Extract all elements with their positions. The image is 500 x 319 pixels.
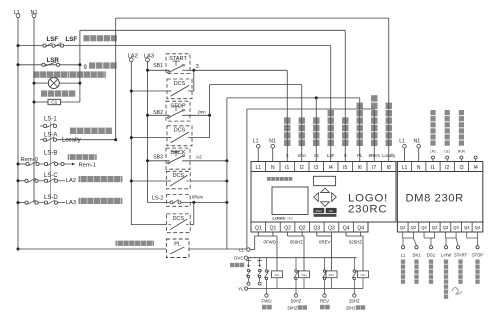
svg-text:LR1: LR1 — [430, 150, 436, 154]
svg-text:Q1: Q1 — [255, 225, 262, 231]
svg-text:DCS: DCS — [174, 128, 186, 134]
svg-text:N1: N1 — [414, 139, 421, 145]
svg-text:0REV: 0REV — [319, 239, 331, 244]
svg-text:Rem-0: Rem-0 — [21, 157, 38, 163]
svg-text:Q2: Q2 — [421, 225, 427, 230]
svg-text:Q3: Q3 — [328, 225, 335, 231]
svg-text:PL: PL — [357, 153, 363, 158]
svg-text:I3: I3 — [314, 165, 318, 171]
svg-text:50HZ: 50HZ — [288, 306, 299, 311]
svg-text:L1: L1 — [399, 139, 405, 145]
svg-text:RUN: RUN — [458, 150, 466, 154]
svg-text:LS1: LS1 — [444, 150, 450, 154]
svg-text:LSR: LSR — [47, 57, 60, 64]
svg-text:LS-B: LS-B — [44, 151, 57, 157]
svg-text:25H: 25H — [360, 273, 365, 277]
svg-text:I8: I8 — [387, 165, 391, 171]
svg-text:L1: L1 — [255, 165, 261, 171]
svg-text:I1: I1 — [285, 165, 289, 171]
svg-text:Q3: Q3 — [443, 225, 449, 230]
svg-text:Rem-1: Rem-1 — [79, 163, 96, 169]
svg-text:Q2: Q2 — [411, 225, 417, 230]
svg-text:L-HW: L-HW — [441, 253, 452, 258]
svg-text:Locally: Locally — [62, 138, 81, 144]
svg-text:3: 3 — [196, 64, 199, 70]
svg-text:DCS: DCS — [173, 216, 185, 222]
svg-text:DG1: DG1 — [427, 253, 436, 258]
svg-text:LS-D: LS-D — [44, 195, 58, 201]
svg-text:230RC: 230RC — [348, 204, 387, 216]
svg-text:Q3: Q3 — [453, 225, 459, 230]
svg-text:FE1: FE1 — [274, 273, 280, 277]
svg-text:REV: REV — [320, 299, 329, 304]
svg-text:A2: A2 — [314, 153, 320, 158]
svg-text:8Rem: 8Rem — [369, 153, 381, 158]
svg-text:Q2: Q2 — [299, 225, 306, 231]
svg-text:LOGO!: LOGO! — [348, 192, 388, 204]
svg-text:DVC: DVC — [234, 256, 243, 261]
svg-text:Q2: Q2 — [400, 225, 406, 230]
svg-text:A2: A2 — [196, 154, 202, 159]
svg-text:PL: PL — [174, 241, 181, 247]
svg-text:ESC: ESC — [316, 209, 323, 213]
svg-text:L1: L1 — [253, 139, 259, 145]
svg-text:LSF: LSF — [327, 153, 335, 158]
svg-text:I5: I5 — [343, 165, 347, 171]
svg-text:Locally: Locally — [382, 153, 396, 158]
svg-text:I2: I2 — [445, 165, 449, 171]
svg-text:I6: I6 — [358, 165, 362, 171]
svg-text:050HZ: 050HZ — [290, 239, 303, 244]
svg-text:YL: YL — [238, 287, 244, 292]
svg-text:Q1: Q1 — [270, 225, 277, 231]
svg-text:LSF: LSF — [66, 36, 78, 43]
svg-text:Q2: Q2 — [284, 225, 291, 231]
svg-text:025HZ: 025HZ — [349, 239, 362, 244]
svg-text:Q4: Q4 — [475, 225, 481, 230]
svg-text:N1: N1 — [269, 139, 276, 145]
svg-text:L1: L1 — [402, 165, 408, 171]
svg-text:Q4: Q4 — [464, 225, 470, 230]
svg-text:2mn: 2mn — [198, 109, 207, 114]
svg-text:50H: 50H — [301, 273, 306, 277]
svg-text:Q2: Q2 — [432, 225, 438, 230]
svg-text:LS-C: LS-C — [44, 173, 58, 179]
svg-text:SB1: SB1 — [153, 63, 163, 69]
svg-text:REV: REV — [329, 273, 335, 277]
svg-text:LS-1: LS-1 — [44, 117, 57, 123]
svg-text:STOP: STOP — [472, 253, 483, 258]
svg-text:L1: L1 — [401, 253, 406, 258]
svg-text:25HZ: 25HZ — [346, 306, 357, 311]
svg-text:LS-2: LS-2 — [152, 196, 163, 202]
svg-text:FWD: FWD — [262, 299, 272, 304]
svg-text:LA2: LA2 — [66, 178, 76, 184]
svg-text:Q3: Q3 — [313, 225, 320, 231]
svg-text:2mn: 2mn — [298, 153, 307, 158]
svg-text:LOGO!: LOGO! — [273, 215, 286, 220]
svg-text:DCS: DCS — [174, 81, 186, 87]
svg-text:N: N — [417, 165, 421, 171]
svg-text:mini: mini — [287, 216, 293, 220]
svg-text:25HZ: 25HZ — [349, 299, 360, 304]
svg-text:LSF: LSF — [47, 36, 59, 43]
svg-text:START: START — [454, 253, 468, 258]
svg-text:C1: C1 — [51, 100, 57, 106]
svg-text:8Rem: 8Rem — [192, 195, 204, 200]
svg-text:DK1: DK1 — [413, 253, 422, 258]
svg-text:DM8 230R: DM8 230R — [406, 193, 464, 205]
svg-text:LA3: LA3 — [66, 200, 76, 206]
svg-text:I2: I2 — [300, 165, 304, 171]
svg-text:N: N — [271, 165, 275, 171]
svg-text:Q4: Q4 — [343, 225, 350, 231]
svg-text:I7: I7 — [372, 165, 376, 171]
svg-text:50HZ: 50HZ — [291, 299, 302, 304]
svg-text:I4: I4 — [329, 165, 333, 171]
svg-text:0FWD: 0FWD — [264, 239, 276, 244]
svg-text:L1: L1 — [239, 248, 244, 253]
svg-text:SB3: SB3 — [153, 154, 163, 160]
svg-text:OK: OK — [329, 209, 333, 213]
svg-text:I1: I1 — [431, 165, 435, 171]
svg-text:I3: I3 — [459, 165, 463, 171]
svg-text:LS-A: LS-A — [44, 132, 57, 138]
svg-text:I4: I4 — [474, 165, 478, 171]
svg-text:Q4: Q4 — [357, 225, 364, 231]
